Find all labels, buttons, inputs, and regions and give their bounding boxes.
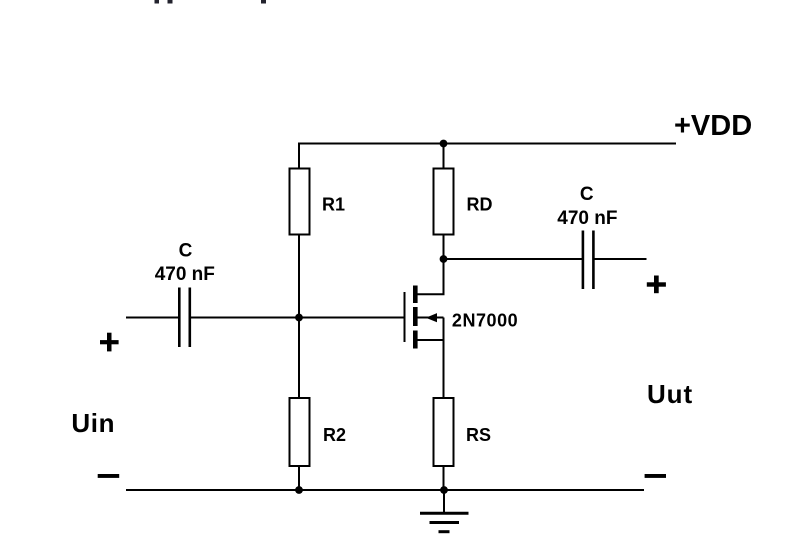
svg-text:+VDD: +VDD (674, 110, 752, 142)
cut-off text descender p2 (168, 0, 173, 4)
value 470 nF (output) (557, 208, 617, 229)
wire: R2 bottom lead (298, 466, 300, 490)
svg-text:2N7000: 2N7000 (452, 310, 518, 330)
plus sign (output) (647, 276, 666, 294)
label +VDD (674, 110, 752, 142)
resistor RD (434, 169, 454, 235)
wire: R2 top lead (298, 318, 300, 399)
ground stub (443, 490, 445, 513)
label Uut (647, 379, 693, 409)
capacitor C (input) right plate (189, 288, 192, 348)
label R1 (322, 194, 345, 214)
capacitor C (input) left plate (178, 288, 181, 348)
transistor Q1 2N7000 gate bar (404, 292, 406, 342)
resistor R2 (290, 398, 310, 466)
ground bar 3 (439, 530, 450, 533)
wire: bottom rail (126, 489, 644, 491)
label RD (467, 194, 493, 214)
svg-text:470 nF: 470 nF (557, 208, 617, 229)
label R2 (323, 425, 346, 445)
wire: substrate-source tie and source down lead (443, 318, 445, 399)
wire: R1 lower lead to gate node (298, 235, 300, 318)
svg-text:C: C (580, 184, 594, 205)
svg-text:R2: R2 (323, 425, 346, 445)
wire: +VDD top rail (299, 144, 676, 169)
cut-off text descender p3 (261, 0, 266, 4)
ground bar 1 (420, 512, 469, 515)
minus sign (input) (98, 474, 120, 478)
svg-text:Uin: Uin (71, 408, 115, 438)
ground bar 2 (430, 521, 460, 524)
svg-text:R1: R1 (322, 194, 345, 214)
plus sign (input) (100, 333, 119, 352)
node: gate junction dot (295, 314, 303, 322)
wire: output line left of capacitor C (444, 258, 583, 260)
wire: RS bottom lead (443, 466, 445, 490)
transistor Q1 channel bar (source) (413, 331, 418, 349)
wire: RD bottom lead (443, 235, 445, 260)
svg-text:RS: RS (466, 425, 491, 445)
transistor Q1 channel bar (body) (413, 307, 418, 326)
svg-text:C: C (179, 241, 193, 262)
svg-text:Uut: Uut (647, 379, 693, 409)
wire: drain lead of Q1 (418, 259, 444, 294)
resistor RS (434, 398, 454, 466)
junction dot on VDD rail (440, 140, 448, 148)
resistor R1 (290, 169, 310, 235)
minus sign (output) (645, 474, 666, 478)
label Uin (71, 408, 115, 438)
wire: gate line from capacitor to MOSFET gate (191, 317, 404, 319)
wire: substrate lead of Q1 (418, 317, 444, 319)
value 470 nF (input) (155, 264, 215, 285)
transistor Q1 channel bar (drain) (413, 286, 418, 304)
wire: RD top lead (443, 144, 445, 169)
node: R2 bottom junction dot (295, 486, 303, 494)
arrow of Q1 substrate (N-channel) (426, 313, 437, 322)
capacitor C (output) right plate (592, 231, 595, 290)
node: drain junction dot (440, 255, 448, 263)
svg-text:470 nF: 470 nF (155, 264, 215, 285)
label C (input) (179, 241, 193, 262)
wire: source lead of Q1 (418, 339, 444, 341)
svg-text:RD: RD (467, 194, 493, 214)
wire: output line right of capacitor (595, 258, 647, 260)
capacitor C (output) left plate (582, 231, 585, 290)
label C (output) (580, 184, 594, 205)
node: RS bottom junction dot (440, 486, 448, 494)
label RS (466, 425, 491, 445)
wire: input line left of capacitor C (126, 317, 178, 319)
label 2N7000 (452, 310, 518, 330)
cut-off text descender p1 (155, 0, 160, 4)
